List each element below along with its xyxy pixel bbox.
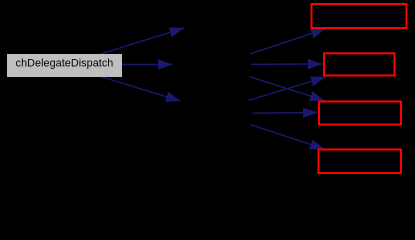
- wire: edge hidden node M3 -> red box B4: [250, 125, 325, 150]
- wire: edge hidden node M2 -> red box B1: [250, 29, 326, 54]
- wire: edge hidden node M3 -> red box B2: [249, 77, 326, 101]
- node red box B4: [319, 150, 402, 174]
- wire: edge chDelegateDispatch -> hidden node M3: [101, 77, 181, 102]
- node red box B3: [319, 102, 401, 125]
- wire: edge hidden node M2 -> red box B2: [251, 63, 323, 65]
- node red box B2: [324, 53, 395, 75]
- wire: edge hidden node M3 -> red box B3: [253, 112, 318, 115]
- wire: edge chDelegateDispatch -> hidden node M1: [101, 28, 185, 54]
- node chDelegateDispatch (grey filled node): [7, 54, 122, 77]
- node red box B1: [312, 4, 407, 28]
- wire: edge chDelegateDispatch -> hidden node M2: [122, 64, 173, 66]
- svg-text:chDelegateDispatch: chDelegateDispatch: [16, 58, 114, 70]
- wire: edge hidden node M2 -> red box B3: [249, 77, 325, 101]
